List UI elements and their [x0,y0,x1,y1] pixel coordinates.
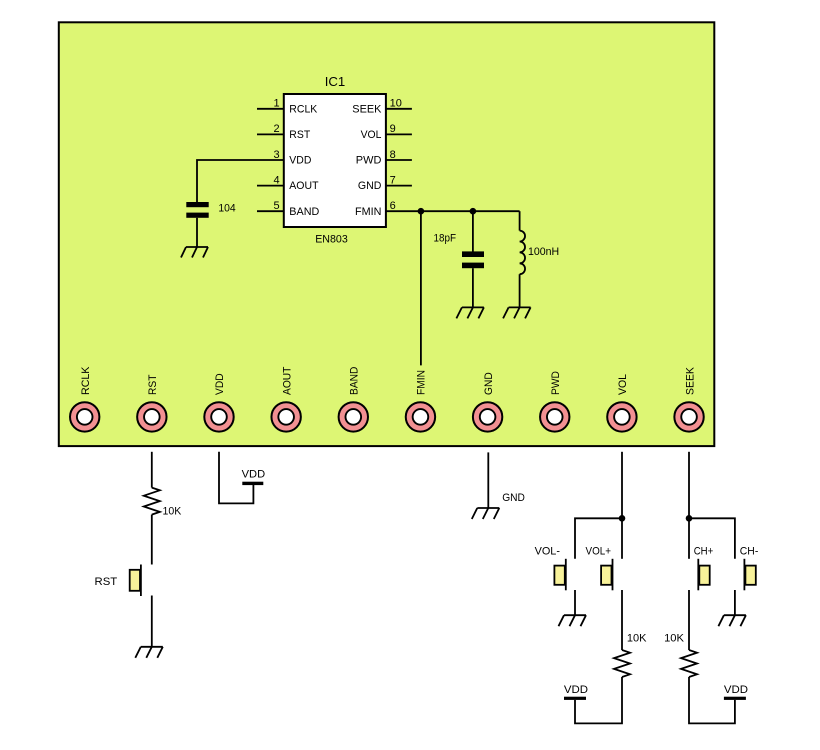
pin name RST [289,129,310,141]
svg-text:RST: RST [95,576,118,588]
value label 10K R3 [664,633,685,645]
label GND [502,492,525,504]
capacitor C2 18pF [462,251,484,307]
ground GND pad [472,508,500,519]
pad FMIN [406,370,435,432]
label CH- [740,545,759,557]
pin name SEEK [352,103,382,115]
svg-text:VDD: VDD [564,684,588,696]
svg-text:CH-: CH- [740,545,759,557]
pad VDD [204,373,233,431]
svg-text:GND: GND [483,372,495,395]
label CH+ [694,545,714,557]
pad SEEK [674,366,703,431]
pin number 1 [273,98,279,110]
wire pin10 stub [386,108,412,110]
svg-text:PWD: PWD [550,371,562,395]
wire VOL- to ground [574,590,576,615]
junction C2 [470,208,477,215]
svg-text:9: 9 [390,123,396,135]
svg-text:4: 4 [273,174,279,186]
wire VDD pad net [219,452,253,504]
ground for C2 [456,307,484,318]
pin number 2 [273,123,279,135]
op IC1 box [284,94,386,227]
wire VOL+ branch [621,518,623,559]
pin number 10 [390,98,402,110]
svg-text:RST: RST [147,374,159,395]
ground CH- [718,615,746,626]
svg-text:RCLK: RCLK [289,103,318,115]
svg-text:CH+: CH+ [694,545,714,557]
svg-text:10K: 10K [664,633,685,645]
pin name VOL [361,129,382,141]
wire pin9 stub [386,133,412,135]
power VDD bar (pad) [242,482,263,485]
wire VOL- branch [575,518,622,559]
svg-text:VDD: VDD [724,684,748,696]
junction VOL [619,515,626,522]
svg-text:BAND: BAND [349,367,361,395]
wire R3 to VDD [689,677,735,723]
wire VOL pad down [621,452,623,519]
label VOL+ [586,545,612,557]
pin name BAND [289,206,319,218]
wire CH- branch [689,518,735,559]
pad RCLK [70,366,99,432]
svg-text:GND: GND [502,492,525,504]
svg-text:10K: 10K [627,633,647,645]
value label 100nH [528,246,559,258]
pin number 3 [273,149,279,161]
pin number 7 [390,174,396,186]
inductor L1 100nH [520,211,525,307]
resistor R3 10K [681,650,697,677]
svg-text:AOUT: AOUT [281,366,293,395]
wire FMIN down to pad [420,211,422,365]
pin name RCLK [289,103,318,115]
wire pin7 stub [386,185,412,187]
svg-text:5: 5 [273,200,279,212]
wire SEEK pad down [688,452,690,519]
pad AOUT [271,366,300,431]
pin number 8 [390,149,396,161]
svg-text:100nH: 100nH [528,246,559,258]
svg-text:FMIN: FMIN [416,370,428,395]
value label 10K R1 [163,505,182,517]
svg-text:VOL+: VOL+ [586,545,612,557]
junction SEEK [686,515,693,522]
pad BAND [339,367,368,432]
pin name FMIN [355,206,381,218]
pad PWD [540,371,569,432]
svg-text:104: 104 [218,203,235,215]
svg-text:2: 2 [273,123,279,135]
label VOL- [535,545,561,557]
power VDD bar (VOL) [564,697,586,700]
label RST [95,576,118,588]
wire pin1 stub [257,108,284,110]
button CH- [744,559,755,591]
svg-text:EN803: EN803 [315,233,348,245]
pin name VDD [289,155,311,167]
pad VOL [607,374,636,432]
svg-text:7: 7 [390,174,396,186]
ground RST [135,647,163,658]
wire RST pad down [151,452,153,488]
svg-text:IC1: IC1 [325,74,346,89]
pad GND [473,372,502,431]
button VOL+ [601,559,612,591]
svg-text:VOL: VOL [617,374,629,395]
label VDD (pad) [242,469,266,481]
wire pin5 stub [257,210,284,212]
wire GND pad down [487,452,489,508]
junction FMIN-pad [418,208,425,215]
PCB board outline [59,22,715,446]
svg-text:10K: 10K [163,505,182,517]
value label 104 [218,203,235,215]
capacitor C1 104 [186,202,208,247]
button VOL- [554,559,565,591]
wire down to C2 [472,211,474,251]
pin name GND [358,180,382,192]
pin name PWD [356,155,382,167]
svg-text:VDD: VDD [214,373,226,395]
svg-text:1: 1 [273,98,279,110]
svg-text:VOL-: VOL- [535,545,561,557]
svg-text:RST: RST [289,129,310,141]
label VDD (VOL) [564,684,588,696]
wire R1 to button [151,515,153,565]
wire pin8 stub [386,159,412,161]
svg-text:FMIN: FMIN [355,206,381,218]
ground for L1 [503,307,530,318]
power VDD bar (CH) [724,697,746,700]
resistor R2 10K [614,650,630,677]
wire button to ground [151,596,153,647]
button CH+ [698,559,709,591]
ref label IC1 [325,74,346,89]
pin number 5 [273,200,279,212]
svg-text:BAND: BAND [289,206,319,218]
wire CH+ to R3 [688,590,690,650]
pin number 6 [390,200,396,212]
svg-text:8: 8 [390,149,396,161]
wire pin2 stub [257,133,284,135]
svg-text:SEEK: SEEK [352,103,382,115]
pin number 4 [273,174,279,186]
svg-text:SEEK: SEEK [684,366,696,395]
part label EN803 [315,233,348,245]
wire CH+ branch [688,518,690,559]
value label 18pF [434,233,457,245]
svg-text:VOL: VOL [361,129,382,141]
wire FMIN net pin6 [386,210,520,212]
resistor R1 10K [144,488,160,515]
ground for C1 [181,247,208,258]
pin name AOUT [289,180,318,192]
label VDD (CH) [724,684,748,696]
wire pin3 VDD net to C1 [197,160,284,203]
svg-text:AOUT: AOUT [289,180,318,192]
svg-text:GND: GND [358,180,382,192]
ground VOL- [559,615,587,626]
wire R2 to VDD [575,677,622,723]
pad RST [137,374,166,431]
svg-text:PWD: PWD [356,155,382,167]
value label 10K R2 [627,633,647,645]
pin number 9 [390,123,396,135]
wire VOL+ to R2 [621,590,623,650]
wire CH- to ground [734,590,736,615]
button RST [130,565,141,597]
svg-text:10: 10 [390,98,402,110]
svg-text:VDD: VDD [242,469,266,481]
svg-text:RCLK: RCLK [80,366,92,395]
svg-text:18pF: 18pF [434,233,457,245]
svg-text:6: 6 [390,200,396,212]
svg-text:3: 3 [273,149,279,161]
svg-text:VDD: VDD [289,155,311,167]
wire pin4 stub [257,185,284,187]
